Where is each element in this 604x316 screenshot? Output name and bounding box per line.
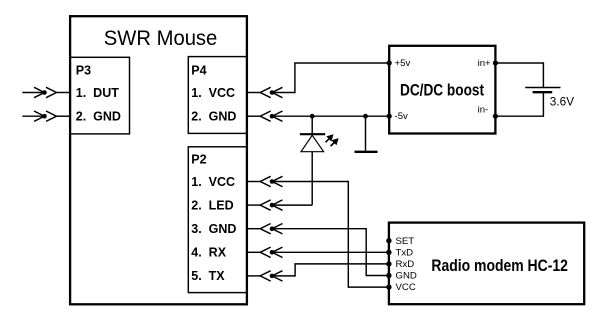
LED D1: [300, 116, 325, 205]
LED light arrow 1: [326, 134, 334, 142]
DC/DC boost box U2: [389, 46, 495, 134]
junction dot P2.3: [270, 226, 275, 231]
connector P3 box: [70, 57, 129, 134]
svg-text:GND: GND: [396, 271, 417, 282]
svg-text:in+: in+: [478, 58, 491, 69]
wire P4.1 VCC to +5v: [272, 63, 389, 93]
junction dot ground node: [363, 114, 368, 119]
connector arrow P2.4: [260, 247, 282, 257]
svg-text:SET: SET: [396, 236, 415, 247]
svg-text:1. VCC: 1. VCC: [191, 86, 235, 100]
wire stub P2.3: [247, 228, 260, 230]
wire stub P3.1: [57, 92, 71, 94]
svg-text:SWR Mouse: SWR Mouse: [104, 25, 218, 50]
junction dot LED node: [310, 114, 315, 119]
pin dot +5v: [387, 60, 392, 65]
svg-text:P3: P3: [76, 64, 91, 78]
pin dot in-: [493, 114, 498, 119]
wire P2.4 RX to HC12 TxD: [272, 251, 389, 253]
pin dot TxD: [386, 250, 391, 255]
wire stub P4.1: [247, 92, 260, 94]
wire stub P2.2: [247, 204, 260, 206]
junction dot P4.1: [270, 90, 275, 95]
connector arrow P2.3: [260, 224, 282, 234]
battery BT1 3.6V: [525, 88, 560, 93]
pin dot SET: [386, 238, 391, 243]
SWR Mouse main box U1: [70, 16, 247, 304]
pin dot -5v: [387, 114, 392, 119]
svg-text:2. GND: 2. GND: [76, 110, 121, 124]
connector arrow P3.2: [34, 111, 57, 121]
pin dot RxD: [386, 261, 391, 266]
LED light arrow 2: [331, 138, 339, 146]
wire stub P4.2: [247, 115, 260, 117]
wire stub P2.1: [247, 181, 260, 183]
svg-text:3.6V: 3.6V: [550, 95, 574, 109]
connector arrow P3.1: [34, 87, 57, 97]
wire into P3 pin 2: [22, 115, 44, 117]
wire P2.2 LED: [272, 204, 312, 206]
wire in+ to battery: [495, 63, 543, 88]
wire into P3 pin 1: [22, 92, 44, 94]
svg-text:4. RX: 4. RX: [191, 246, 226, 260]
pin dot VCC: [386, 284, 391, 289]
junction dot P2.2: [270, 203, 275, 208]
wire stub P2.5: [247, 275, 260, 277]
svg-text:2. GND: 2. GND: [191, 110, 236, 124]
wire P2.5 TX to HC12 RxD: [272, 264, 389, 276]
svg-text:in-: in-: [478, 105, 489, 116]
ground symbol: [355, 116, 378, 152]
junction dot P4.2: [270, 114, 275, 119]
pin dot in+: [493, 60, 498, 65]
svg-text:1. DUT: 1. DUT: [76, 86, 119, 100]
svg-text:Radio modem HC-12: Radio modem HC-12: [431, 257, 568, 275]
svg-text:TxD: TxD: [396, 247, 414, 258]
connector P4 box: [188, 57, 247, 134]
wire P2.1 VCC to HC12 VCC: [272, 182, 389, 288]
pin dot GND: [386, 273, 391, 278]
svg-text:+5v: +5v: [395, 58, 411, 69]
connector arrow P2.5: [260, 271, 282, 281]
wire stub P2.4: [247, 251, 260, 253]
junction dot P3.2: [42, 114, 47, 119]
wire P2.3 GND to HC12 GND: [272, 229, 389, 276]
svg-text:P2: P2: [191, 153, 206, 167]
svg-text:VCC: VCC: [396, 282, 416, 293]
junction dot P2.1: [270, 179, 275, 184]
svg-text:-5v: -5v: [395, 111, 409, 122]
wire battery to in-: [495, 92, 543, 116]
junction dot P2.5: [270, 274, 275, 279]
junction dot P3.1: [42, 90, 47, 95]
svg-text:1. VCC: 1. VCC: [191, 175, 235, 189]
svg-text:RxD: RxD: [396, 259, 415, 270]
connector P2 box: [188, 147, 247, 293]
Radio modem HC-12 box U3: [389, 223, 584, 305]
connector arrow P2.1: [260, 176, 282, 186]
wire P4.2 GND to -5v: [272, 115, 389, 117]
junction dot P2.4: [270, 250, 275, 255]
connector arrow P4.1: [260, 87, 282, 97]
svg-text:2. LED: 2. LED: [191, 198, 233, 212]
wire stub P3.2: [57, 115, 71, 117]
svg-text:5. TX: 5. TX: [191, 269, 225, 283]
svg-text:P4: P4: [191, 64, 206, 78]
svg-text:3. GND: 3. GND: [191, 222, 236, 236]
connector arrow P2.2: [260, 200, 282, 210]
svg-text:DC/DC boost: DC/DC boost: [400, 81, 485, 99]
connector arrow P4.2: [260, 111, 282, 121]
